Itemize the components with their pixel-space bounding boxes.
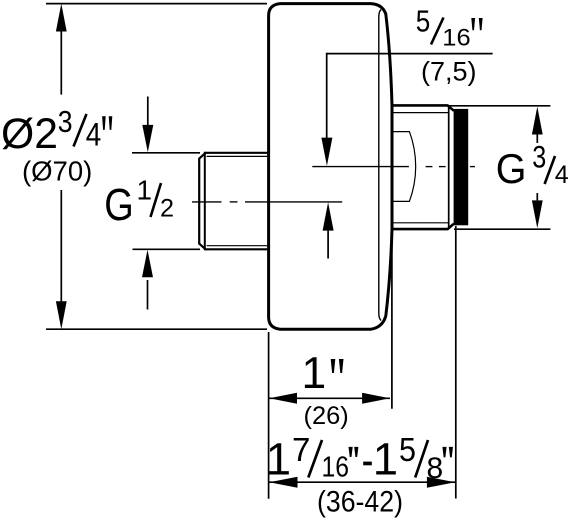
G1/2 nipple outline [199,153,268,250]
G3/4 inner recess [393,132,416,202]
svg-text:4: 4 [86,117,102,153]
svg-text:2: 2 [160,195,174,223]
G3/4 connector outline top [392,105,454,110]
dimension 5/16 up arrow [323,202,334,230]
G3/4 connector thread root lines [393,112,449,114]
svg-text:1: 1 [373,434,398,485]
svg-text:3: 3 [58,104,73,139]
svg-text:(7,5): (7,5) [421,57,477,87]
dimension 5/16 leader down arrow [326,53,328,138]
svg-text:(36-42): (36-42) [317,486,403,519]
dimension Ø2 3/4 (Ø70) dimension line [60,30,62,95]
G1/2 nipple thread end line [204,152,206,251]
svg-text:16: 16 [322,452,350,484]
dimension Ø2 3/4 (Ø70) extension lines [46,3,267,5]
svg-text:1: 1 [137,174,152,205]
dimension G3/4 arrows [532,107,543,135]
svg-text:7: 7 [292,431,310,468]
svg-text:5: 5 [416,4,431,38]
dimension G1/2 arrows [147,97,149,127]
dimension 1 inch (26) dimension line [269,397,390,399]
svg-text:1: 1 [302,349,327,398]
G3/4 connector thread end line [448,105,450,229]
svg-text:1: 1 [266,434,291,485]
dimension 1 inch (26) extension lines [391,230,393,409]
svg-text:4: 4 [555,161,569,189]
svg-text:G: G [104,179,134,230]
G3/4 seal band [454,109,469,225]
svg-text:16: 16 [442,25,470,52]
dimension 36-42 dimension line [269,481,455,483]
svg-text:(26): (26) [304,402,349,430]
flange body outline [269,4,392,330]
dimension 5/16 (7,5) shelf [327,53,493,55]
centerline G1/2 axis [192,201,342,203]
svg-text:G: G [496,145,527,192]
dimension G3/4 extension lines [448,105,550,107]
svg-text:3: 3 [532,139,546,175]
G3/4 connector outline bottom [392,224,454,229]
svg-text:Ø2: Ø2 [1,110,58,158]
svg-text:5: 5 [399,431,416,468]
svg-text:(Ø70): (Ø70) [22,155,92,186]
G1/2 nipple thread root lines [207,155,268,157]
dimension G1/2 extension lines [132,152,200,154]
dimension 36-42 extension line [455,226,457,499]
svg-text:8: 8 [427,452,444,485]
centerline G3/4 axis [312,166,475,168]
flange face inner edge line [379,10,381,321]
